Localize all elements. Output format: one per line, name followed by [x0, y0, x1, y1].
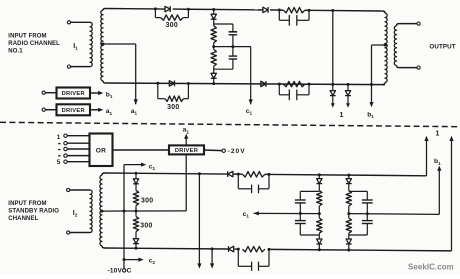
svg-text:b1: b1 [106, 91, 113, 99]
svg-text:c1: c1 [243, 211, 250, 219]
svg-text:NO.1: NO.1 [8, 48, 23, 54]
svg-text:OR: OR [96, 148, 107, 155]
svg-text:DRIVER: DRIVER [62, 91, 85, 97]
svg-text:I1: I1 [73, 43, 78, 52]
svg-text:I2: I2 [73, 210, 78, 219]
svg-text:1: 1 [57, 134, 61, 141]
svg-text:c2: c2 [149, 258, 156, 266]
svg-text:1: 1 [435, 130, 439, 137]
svg-text:C: C [127, 268, 132, 274]
svg-text:DRIVER: DRIVER [62, 108, 85, 114]
svg-text:a1: a1 [131, 108, 138, 116]
svg-text:INPUT FROM: INPUT FROM [8, 201, 46, 207]
svg-text:STANDBY RADIO: STANDBY RADIO [8, 209, 59, 215]
svg-text:5: 5 [57, 159, 61, 166]
svg-text:SeekIC.com: SeekIC.com [408, 263, 454, 272]
svg-text:300: 300 [141, 198, 153, 205]
svg-text:-20V: -20V [228, 148, 246, 155]
svg-text:1: 1 [340, 112, 344, 119]
svg-text:300: 300 [140, 223, 152, 230]
svg-text:c1: c1 [149, 163, 156, 171]
svg-text:b1: b1 [367, 111, 374, 119]
svg-text:CHANNEL: CHANNEL [8, 216, 38, 222]
svg-text:a1: a1 [183, 127, 190, 135]
svg-text:RADIO CHANNEL: RADIO CHANNEL [8, 41, 60, 47]
svg-text:b1: b1 [434, 158, 441, 166]
svg-text:300: 300 [166, 22, 178, 29]
svg-text:-10V: -10V [107, 268, 122, 274]
svg-text:OUTPUT: OUTPUT [429, 43, 455, 50]
svg-text:300: 300 [167, 104, 179, 111]
svg-text:c1: c1 [246, 108, 253, 116]
svg-text:a1: a1 [106, 108, 113, 116]
svg-text:INPUT FROM: INPUT FROM [8, 33, 46, 39]
svg-text:DRIVER: DRIVER [175, 148, 198, 154]
